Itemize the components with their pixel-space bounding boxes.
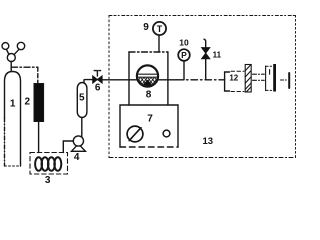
thermometer stem from T gauge [158,35,160,52]
knob dial in box 7 [127,126,143,142]
wire: coil outlet up and right to pump 4 [63,141,73,153]
outer dashed enclosure box [109,16,296,158]
filter (hatched bar) [245,65,251,93]
wire: valve 6 to furnace [102,79,137,81]
svg-text:3: 3 [45,175,51,186]
regulator stem into cylinder [10,62,12,72]
drying column 2 (filled) [34,84,44,122]
svg-text:9: 9 [143,22,149,33]
svg-text:T: T [157,24,163,34]
svg-text:6: 6 [95,83,101,94]
crucible circle 8 [137,65,158,86]
wire: column 2 down to coil box [38,122,40,153]
svg-text:5: 5 [79,93,85,104]
wire: double dash-dot to trap [253,73,265,75]
valve 6 [93,76,98,83]
svg-text:1: 1 [10,99,16,110]
regulator body circle [7,54,15,62]
main line through furnace to right section (dash-dot) [158,79,177,81]
coil element [35,157,61,171]
buffer column 5 [77,83,87,118]
wire: P gauge stem [183,61,185,80]
valve 11 (closed X valve) [202,48,210,54]
regulator stems to gauges [6,49,9,54]
wire: dashed drop to column 2 [37,67,39,83]
wire: column 5 riser to valve 6 [84,80,93,83]
furnace lower box (7) [120,105,178,147]
svg-text:P: P [181,50,187,60]
svg-text:12: 12 [229,73,238,82]
reactor upper box (8) [129,51,168,53]
svg-text:13: 13 [203,136,214,147]
svg-text:11: 11 [213,51,222,60]
collector bracket 12 [225,72,230,91]
indicator lamp in box 7 [163,130,170,137]
svg-text:4: 4 [74,152,80,163]
cold trap vessel [265,66,267,91]
pump 4 [72,144,86,152]
wire: dash-dot line from regulator to column 2 [12,66,38,68]
coil box 3 (dashed) [30,153,68,175]
svg-text:7: 7 [147,114,153,125]
svg-text:10: 10 [179,37,189,47]
regulator gauge right [17,42,24,49]
regulator gauge left [2,43,9,50]
wire: pump to column 5 [81,118,83,137]
svg-text:2: 2 [25,97,31,108]
svg-text:8: 8 [146,89,152,100]
gas cylinder 1 [5,72,21,167]
P gauge 10 [178,49,190,61]
T gauge 9 [153,22,166,35]
wire: outlet dash-dot and end bar [281,79,288,81]
